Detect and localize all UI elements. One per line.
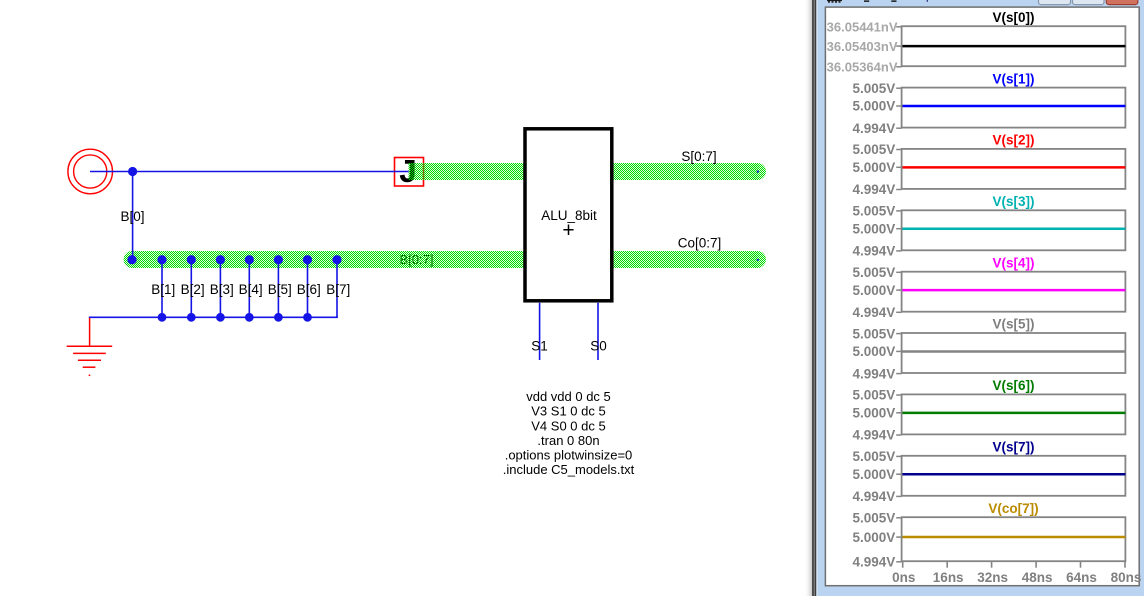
waveform pane background [825,7,1139,586]
svg-text:V(s[0]): V(s[0]) [992,10,1034,25]
bus B[0:7] (hatched green) [124,251,524,268]
svg-text:V(s[2]): V(s[2]) [992,133,1034,148]
svg-text:V(s[3]): V(s[3]) [992,194,1034,209]
waveform pane V(s[6]) [853,378,1126,443]
junction dot on ground rail (B[3]) [216,313,225,322]
junction dot on ground rail (B[1]) [158,313,167,322]
junction dot on bus (B[2]) [187,255,196,264]
svg-text:V(s[4]): V(s[4]) [992,255,1034,270]
junction dot on bus (B[4]) [245,255,254,264]
junction dot on bus (B[3]) [216,255,225,264]
junction dot on bus (B[6]) [303,255,312,264]
wire: select input S1 [539,303,541,360]
bus tap J (red box with J) [395,155,424,192]
svg-text:V(co[7]): V(co[7]) [988,501,1038,516]
svg-text:B[7]: B[7] [326,282,350,297]
svg-text:Co[0:7]: Co[0:7] [678,236,722,251]
svg-text:V(s[6]): V(s[6]) [992,378,1034,393]
junction dot on ground rail (B[6]) [303,313,312,322]
wire: select input S0 [597,303,599,360]
svg-text:4.994V: 4.994V [853,182,896,197]
svg-text:vdd vdd 0 dc 5: vdd vdd 0 dc 5 [526,389,611,404]
svg-text:36.05441nV: 36.05441nV [827,20,898,35]
wire: B[2] tap vertical [190,260,192,318]
svg-text:32ns: 32ns [977,570,1008,585]
svg-text:B[0]: B[0] [121,209,145,224]
svg-text:S[0:7]: S[0:7] [681,149,716,164]
svg-text:4.994V: 4.994V [853,489,896,504]
svg-text:S0: S0 [590,339,607,354]
svg-text:5.005V: 5.005V [853,511,896,526]
svg-text:5.000V: 5.000V [853,160,896,175]
pin dot on Co bus [757,259,759,261]
svg-text:80ns: 80ns [1111,570,1142,585]
wire: B[3] tap vertical [219,260,221,318]
svg-text:5.000V: 5.000V [853,406,896,421]
wire: B[6] tap vertical [307,260,309,318]
junction dot on bus (B[1]) [157,255,166,264]
svg-text:5.005V: 5.005V [853,326,896,341]
svg-text:B[3]: B[3] [210,282,234,297]
junction dot at node B[0] [128,167,137,176]
junction dot on bus (B[7]) [332,255,341,264]
svg-text:V4 S0 0 dc 5: V4 S0 0 dc 5 [531,418,605,433]
svg-text:5.000V: 5.000V [853,344,896,359]
svg-text:4.994V: 4.994V [853,121,896,136]
window button (minimize) [1039,0,1071,5]
wire: B[4] tap vertical [248,260,250,318]
wire: port to J tap (node B[0]) [90,171,409,173]
SPICE directive text block [503,389,635,477]
titlebar dash 1 [864,0,869,2]
svg-text:V(s[5]): V(s[5]) [992,317,1034,332]
wire: B[7] tap vertical [336,260,338,318]
svg-text:5.000V: 5.000V [853,99,896,114]
svg-text:B[5]: B[5] [268,282,292,297]
time axis ticks and labels [892,561,1141,585]
titlebar dash 2 [891,0,896,2]
svg-text:B[4]: B[4] [239,282,263,297]
bus S[0:7] left segment (J tap to ALU) [409,163,524,180]
bus S[0:7] right segment (ALU output) [613,163,766,180]
svg-text:5.000V: 5.000V [853,530,896,545]
svg-text:5.005V: 5.005V [853,142,896,157]
svg-text:4.994V: 4.994V [853,305,896,320]
waveform pane V(s[2]) [853,133,1126,198]
svg-text:5.005V: 5.005V [853,81,896,96]
svg-text:64ns: 64ns [1066,570,1097,585]
svg-text:5.005V: 5.005V [853,265,896,280]
waveform viewer window frame [804,0,1144,596]
svg-text:V(s[7]): V(s[7]) [992,440,1034,455]
svg-text:.include C5_models.txt: .include C5_models.txt [503,462,635,477]
svg-text:4.994V: 4.994V [853,244,896,259]
titlebar cursor tick [927,0,928,2]
window button (close) [1106,0,1138,5]
pin dot on S bus [757,171,759,173]
svg-text:4.994V: 4.994V [853,366,896,381]
waveform pane V(s[5]) [853,317,1126,382]
svg-text:S1: S1 [531,339,548,354]
svg-text:36.05403nV: 36.05403nV [827,39,898,54]
waveform pane V(s[1]) [853,71,1126,136]
svg-text:.tran 0 80n: .tran 0 80n [537,433,599,448]
bus Co[0:7] (carry output) [613,251,766,268]
window button (maximize) [1073,0,1105,5]
waveform pane V(s[3]) [853,194,1126,259]
junction dot on bus (B[0]) [127,255,136,264]
ground symbol [67,318,113,376]
port/source symbol (red double circle) [68,149,113,194]
svg-text:4.994V: 4.994V [853,428,896,443]
svg-text:48ns: 48ns [1022,570,1053,585]
waveform pane V(s[0]) [827,10,1126,75]
svg-text:0ns: 0ns [892,570,915,585]
waveform pane V(co[7]) [853,501,1126,570]
junction dot on ground rail (B[4]) [245,313,254,322]
svg-text:V(s[1]): V(s[1]) [992,71,1034,86]
svg-text:5.000V: 5.000V [853,221,896,236]
svg-text:B[6]: B[6] [297,282,321,297]
svg-text:.options plotwinsize=0: .options plotwinsize=0 [505,448,633,463]
svg-text:B[1]: B[1] [151,282,175,297]
junction dot on bus (B[5]) [274,255,283,264]
svg-text:+: + [562,219,574,242]
svg-text:V3 S1 0 dc 5: V3 S1 0 dc 5 [531,404,605,419]
svg-text:4.994V: 4.994V [853,555,896,570]
svg-text:36.05364nV: 36.05364nV [827,60,898,75]
svg-text:5.000V: 5.000V [853,283,896,298]
titlebar icon remnant [827,0,842,3]
svg-text:B[2]: B[2] [181,282,205,297]
wire: ground rail horizontal [90,316,337,318]
waveform pane V(s[7]) [853,440,1126,505]
wire: B[0] vertical drop to bus [132,172,134,260]
wire: B[5] tap vertical [277,260,279,318]
svg-text:5.005V: 5.005V [853,449,896,464]
svg-text:16ns: 16ns [933,570,964,585]
svg-text:5.000V: 5.000V [853,467,896,482]
junction dot on ground rail (B[5]) [274,313,283,322]
waveform pane V(s[4]) [853,255,1126,320]
svg-text:5.005V: 5.005V [853,204,896,219]
junction dot on ground rail (B[2]) [187,313,196,322]
svg-text:5.005V: 5.005V [853,388,896,403]
wire: B[1] tap vertical [161,260,163,318]
ALU_8bit block U1 [525,129,612,301]
